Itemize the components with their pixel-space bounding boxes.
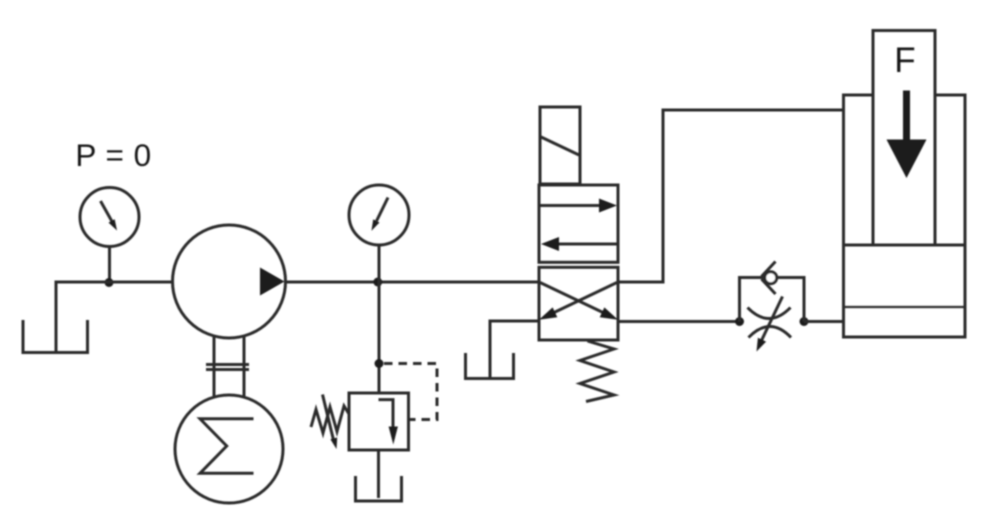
tank T2 — [356, 476, 402, 501]
piston — [844, 245, 966, 307]
wire gauge G2 drop / relief feed — [378, 245, 381, 393]
wire valve port B to flow control — [618, 320, 740, 323]
wire flow control to cylinder bottom — [804, 320, 844, 323]
tank T3 — [466, 353, 514, 379]
pilot line dashed — [384, 364, 437, 420]
cylinder barrel — [844, 95, 966, 337]
node gauge G2 junction — [373, 278, 382, 287]
relief valve spring — [311, 406, 349, 433]
sigma symbol — [200, 419, 254, 474]
node suction junction — [105, 278, 114, 287]
tank T1 — [23, 320, 88, 353]
flow arrow right — [541, 199, 618, 213]
coupling ticks — [206, 365, 249, 370]
check valve CV1 — [762, 262, 777, 295]
pump P1 — [173, 225, 286, 338]
svg-text:F: F — [894, 41, 915, 80]
node flow control right — [800, 317, 809, 326]
node flow control left — [735, 317, 744, 326]
relief valve flow arrow — [379, 400, 398, 445]
wire pressure line pump to valve — [286, 281, 540, 284]
crossed flow path arrow A — [539, 282, 618, 320]
relief valve adjust arrow — [323, 395, 338, 450]
wire valve port A to cylinder top — [618, 110, 844, 282]
node pilot branch — [375, 359, 384, 368]
force arrow — [887, 91, 927, 179]
relief valve V1 body — [349, 393, 409, 450]
wire suction line to tank T1 — [56, 282, 173, 352]
svg-text:P = 0: P = 0 — [75, 137, 151, 173]
flow arrow left — [541, 237, 617, 251]
throttle restrictor arcs — [748, 308, 792, 338]
piston rod — [873, 31, 935, 246]
wire relief valve to tank T2 — [377, 450, 380, 498]
pump flow triangle — [260, 268, 285, 296]
throttle adjust arrow — [757, 297, 783, 352]
pump-motor shaft — [214, 337, 244, 398]
check valve bypass loop — [740, 278, 805, 322]
pressure gauge G2 — [349, 185, 409, 245]
solenoid S1 — [540, 107, 580, 184]
crossed flow path arrow B — [539, 282, 618, 320]
wire valve to tank T3 — [490, 321, 539, 377]
wire gauge G1 drop — [108, 247, 111, 283]
valve V2 position a box — [539, 185, 618, 262]
pressure gauge G1 — [80, 188, 139, 247]
valve return spring — [580, 341, 614, 402]
valve V2 position b box — [539, 267, 618, 340]
motor M1 — [175, 395, 283, 503]
solenoid diagonal — [540, 137, 579, 156]
